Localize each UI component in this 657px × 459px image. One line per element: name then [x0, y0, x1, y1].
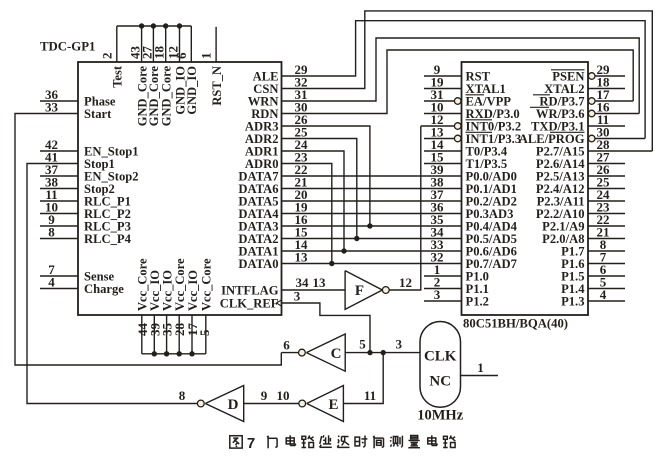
- wire DATA6 net: U1 to U2 P0.6 bus line: [282, 188, 462, 190]
- U2 pin 11 stub: [588, 125, 625, 127]
- svg-text:11: 11: [364, 388, 376, 403]
- caption glyph 电: [428, 435, 437, 445]
- U2 pin 16 bubble: [588, 110, 595, 117]
- svg-text:Charge: Charge: [84, 282, 124, 296]
- svg-text:18: 18: [152, 46, 167, 60]
- wire Vcc bus below U1: [142, 353, 206, 355]
- U2 pin 13 stub: [424, 138, 454, 140]
- wire gate E output net 11: up to oscillator node: [343, 353, 383, 404]
- svg-text:5: 5: [197, 329, 212, 336]
- U1 pin 2 Test lead: [116, 26, 118, 62]
- svg-text:C: C: [331, 346, 342, 362]
- caption glyph 间: [373, 436, 383, 449]
- svg-text:3: 3: [434, 287, 441, 302]
- svg-text:10MHz: 10MHz: [417, 408, 463, 424]
- junction on Vcc bus: [189, 351, 194, 356]
- junction on GND bus: [139, 23, 144, 28]
- inverter D input bubble: [197, 400, 204, 407]
- svg-text:80C51BH/BQA(40): 80C51BH/BQA(40): [463, 317, 568, 331]
- U2 pin 16 stub: [595, 113, 639, 115]
- svg-text:Test: Test: [111, 65, 125, 88]
- svg-text:3: 3: [396, 337, 403, 352]
- wire DATA5 net: U1 to U2 P0.5 bus line: [282, 200, 462, 202]
- svg-text:D: D: [228, 397, 239, 413]
- svg-text:P1.2: P1.2: [466, 294, 489, 308]
- svg-text:33: 33: [45, 100, 59, 115]
- wire ADR0 net: U1.23 down to DATA0 line: [282, 164, 332, 264]
- U1 pin 27 GND_Core lead: [152, 26, 154, 62]
- U2 pin 26 stub: [588, 175, 625, 177]
- svg-text:Vcc_IO: Vcc_IO: [186, 270, 200, 311]
- U2 pin 19 stub: [424, 88, 462, 90]
- wire F output net 12: to U2.12 INT0/P3.2: [389, 126, 421, 290]
- U1 pin 1 RST_N lead: [215, 27, 217, 62]
- svg-text:TDC-GP1: TDC-GP1: [40, 40, 95, 54]
- junction gate E output on oscillator node: [381, 350, 386, 355]
- U2 pin 30 bubble: [588, 135, 595, 142]
- caption glyph 路: [302, 436, 314, 448]
- wire INTFLAG net: U1.34 to gate F input: [282, 289, 346, 291]
- caption glyph 路: [443, 436, 455, 448]
- junction on GND bus: [151, 23, 156, 28]
- inverter C triangle: [306, 334, 345, 371]
- junction ADR3/DATA3: [367, 223, 372, 228]
- inverter D triangle: [205, 386, 243, 422]
- svg-text:4: 4: [600, 287, 607, 302]
- wire Start net: U1.33 to gate C output, left route: [15, 114, 281, 366]
- junction ADR1/DATA1: [341, 248, 346, 253]
- caption glyph 测: [390, 436, 402, 448]
- caption glyph 时: [355, 436, 367, 448]
- svg-text:4: 4: [48, 275, 55, 290]
- U1 pin 4 stub: [40, 288, 78, 290]
- wire WRN net: U1.31 over top to U2.16 WR/P3.6: [282, 38, 640, 114]
- junction on Vcc bus: [177, 351, 182, 356]
- U1 pin 6 GND_IO lead: [190, 26, 192, 62]
- svg-text:CLK_REF: CLK_REF: [220, 296, 279, 310]
- caption glyph 电: [286, 435, 295, 445]
- wire DATA7 net: U1 to U2 P0.7 bus line: [282, 175, 462, 177]
- U1 pin 42 stub: [40, 150, 78, 152]
- U2 pin 22 stub: [588, 225, 625, 227]
- svg-text:8: 8: [48, 225, 55, 240]
- U2 pin 24 stub: [588, 200, 625, 202]
- inverter F output bubble: [382, 287, 389, 294]
- svg-text:13: 13: [313, 275, 327, 290]
- U2 pin 30 stub: [595, 138, 645, 140]
- U1 pin 5 Vcc_Core lead: [205, 315, 207, 354]
- svg-text:E: E: [328, 397, 338, 413]
- U2 pin 10 stub: [424, 113, 462, 115]
- U2 pin 28 stub: [588, 150, 652, 152]
- svg-text:1: 1: [199, 53, 214, 60]
- junction on Vcc bus: [164, 351, 169, 356]
- U1 CLK_REF clock-input triangle: [277, 300, 282, 306]
- U2 pin 12 stub: [421, 125, 455, 127]
- wire ADR2 net: U1.25 down to DATA2 line: [282, 139, 357, 239]
- svg-text:RST_N: RST_N: [210, 66, 224, 106]
- oscillator output stub pin 1: [461, 375, 499, 377]
- svg-text:13: 13: [295, 250, 309, 265]
- wire ALE net: U1.29 over top to U2.30 ALE/PROG: [282, 21, 646, 139]
- U1 pin 11 stub: [40, 200, 78, 202]
- svg-text:8: 8: [179, 388, 186, 403]
- svg-text:9: 9: [261, 388, 268, 403]
- wire GND bus above U1: [117, 25, 192, 27]
- inverter C input bubble: [299, 349, 306, 356]
- U2 pin 5 stub: [588, 288, 625, 290]
- U1 pin 37 stub: [40, 175, 78, 177]
- svg-text:GND_IO: GND_IO: [185, 66, 199, 115]
- U2 pin 14 stub: [424, 150, 462, 152]
- U1 pin 36 stub: [40, 100, 78, 102]
- junction on GND bus: [177, 23, 182, 28]
- wire DATA3 net: U1 to U2 P0.3 bus line: [282, 225, 462, 227]
- caption glyph 门: [267, 436, 277, 449]
- svg-text:1: 1: [477, 360, 484, 375]
- wire ADR1 net: U1.24 down to DATA1 line: [282, 151, 345, 251]
- wire gate D to gate E net 9/10: [244, 403, 299, 405]
- U2 pin 7 stub: [588, 263, 625, 265]
- U2 pin 8 stub: [588, 250, 625, 252]
- U2 pin 4 stub: [588, 300, 625, 302]
- svg-text:INTFLAG: INTFLAG: [221, 283, 279, 297]
- U2 pin 15 stub: [424, 163, 462, 165]
- U2 pin 18 stub: [588, 88, 625, 90]
- inverter F triangle: [345, 271, 382, 310]
- U1 pin 43 GND_Core lead: [141, 26, 143, 62]
- wire DATA0 net: U1 to U2 P0.0 bus line: [282, 263, 462, 265]
- svg-text:10: 10: [277, 388, 290, 403]
- junction ADR2/DATA2: [354, 236, 359, 241]
- wire DATA2 net: U1 to U2 P0.2 bus line: [282, 238, 462, 240]
- U1 pin 38 stub: [40, 188, 78, 190]
- U2 pin 27 stub: [588, 163, 625, 165]
- svg-text:6: 6: [174, 52, 189, 59]
- svg-text:CLK: CLK: [424, 349, 457, 365]
- U2 pin 17 bubble: [588, 98, 595, 105]
- U2 pin 3 stub: [424, 300, 462, 302]
- svg-text:6: 6: [283, 338, 290, 353]
- U1 pin 12 GND_IO lead: [179, 26, 181, 62]
- U1 pin 28 Vcc_Core lead: [178, 315, 180, 354]
- caption glyph 延: [320, 435, 332, 447]
- U2 pin 6 stub: [588, 275, 625, 277]
- wire DATA1 net: U1 to U2 P0.1 bus line: [282, 250, 462, 252]
- junction CLK_REF staircase on oscillator node: [367, 350, 372, 355]
- oscillator X1 CLK/NC body: [420, 322, 461, 408]
- U1 pin 10 stub: [40, 213, 78, 215]
- junction ADR0/DATA0: [329, 261, 334, 266]
- U1 pin 9 stub: [40, 225, 78, 227]
- U2 pin 21 stub: [588, 238, 625, 240]
- junction on Vcc bus: [152, 351, 157, 356]
- U2 pin 29 stub: [595, 75, 625, 77]
- U2 pin 23 stub: [588, 213, 625, 215]
- U2 pin 1 stub: [424, 275, 462, 277]
- U2 pin 12 bubble: [454, 123, 461, 130]
- U2 pin 17 stub: [595, 100, 633, 102]
- svg-text:GND_Core: GND_Core: [160, 66, 174, 127]
- wire CLK_REF net: U1.3 staircase to oscillator node: [282, 303, 371, 353]
- svg-text:RLC_P4: RLC_P4: [84, 232, 132, 246]
- U1 pin 17 Vcc_IO lead: [191, 315, 193, 354]
- svg-text:7: 7: [247, 435, 255, 452]
- caption figure number glyph 图: [230, 436, 242, 448]
- U2 pin 25 stub: [588, 188, 625, 190]
- U2 pin 13 bubble: [454, 135, 461, 142]
- svg-text:5: 5: [359, 337, 366, 352]
- wire ADR3 net: U1.26 down to DATA3 line: [282, 126, 370, 226]
- svg-text:F: F: [355, 283, 364, 299]
- U2 pin 9 stub: [424, 75, 462, 77]
- svg-text:DATA0: DATA0: [238, 257, 278, 271]
- wire DATA4 net: U1 to U2 P0.4 bus line: [282, 213, 462, 215]
- inverter E input bubble: [299, 400, 306, 407]
- U1 pin 18 GND_Core lead: [165, 26, 167, 62]
- IC U1 TDC-GP1 body: [78, 62, 282, 315]
- U2 pin 29 bubble: [588, 73, 595, 80]
- U1 pin 39 Vcc_IO lead: [153, 315, 155, 354]
- caption glyph 量: [408, 436, 420, 448]
- U1 pin 8 stub: [40, 238, 78, 240]
- U2 pin 31 bubble: [454, 98, 461, 105]
- svg-text:P1.3: P1.3: [561, 294, 584, 308]
- inverter E triangle: [307, 386, 344, 422]
- svg-text:NC: NC: [429, 374, 451, 390]
- wire gate C input net 6: [281, 352, 298, 354]
- svg-text:Vcc_Core: Vcc_Core: [200, 258, 214, 311]
- caption glyph 迟: [337, 436, 349, 448]
- junction on GND bus: [163, 23, 168, 28]
- U1 pin 7 stub: [40, 275, 78, 277]
- svg-text:2: 2: [99, 53, 114, 60]
- svg-text:3: 3: [294, 289, 301, 304]
- wire oscillator node: gate C to CLK oscillator: [345, 352, 420, 354]
- svg-text:Start: Start: [84, 107, 112, 121]
- U1 pin 44 Vcc_Core lead: [141, 315, 143, 354]
- svg-text:12: 12: [399, 275, 412, 290]
- IC U2 80C51 body: [462, 62, 589, 315]
- U1 pin 35 Vcc_IO lead: [166, 315, 168, 354]
- U2 pin 31 stub: [424, 100, 454, 102]
- wire RDN net: U1.30 over top to U2.17 RD/P3.7: [282, 50, 634, 114]
- wire Stop1 net: U1.41 to gate D input: [27, 164, 197, 404]
- U2 pin 2 stub: [424, 288, 462, 290]
- wire CSN net: U1.32 over top to U2.28 P2.7/A15: [282, 11, 653, 151]
